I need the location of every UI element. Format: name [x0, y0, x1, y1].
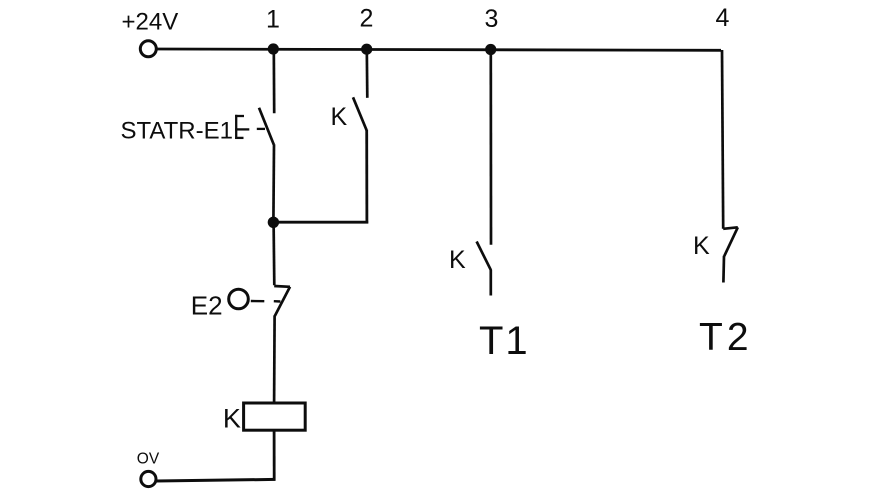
node A junction	[268, 217, 279, 228]
wire top rail	[157, 49, 722, 50]
pushbutton head of E2	[229, 289, 249, 309]
node 3 junction	[485, 44, 496, 55]
node 1 junction	[268, 43, 279, 54]
contact K column2 blade (NO)	[353, 97, 367, 130]
svg-text:3: 3	[485, 5, 499, 33]
wire column1 E2 to coil K	[273, 316, 276, 403]
node 2 junction	[361, 44, 372, 55]
contact K column4 (NC) blade	[724, 227, 738, 256]
svg-text:1: 1	[266, 5, 280, 33]
wire node A to column2	[273, 221, 368, 224]
contact K column3 blade (NO)	[477, 242, 491, 271]
svg-text:+24V: +24V	[122, 8, 179, 35]
svg-text:K: K	[693, 232, 710, 260]
terminal OV	[141, 471, 156, 486]
pushbutton actuator E of STATR-E1	[235, 115, 265, 139]
svg-text:2: 2	[360, 5, 374, 33]
contact E2 (NC) top bar	[274, 285, 290, 288]
svg-text:K: K	[223, 403, 241, 433]
svg-text:E2: E2	[191, 291, 223, 321]
actuator dashes of E2	[251, 300, 281, 303]
terminal +24V	[140, 41, 156, 57]
wire column1 node A to contact E2	[272, 222, 275, 285]
wire column4 contact stub to T2	[722, 256, 725, 283]
wire column3 contact stub to T1	[489, 270, 492, 296]
svg-text:T2: T2	[699, 316, 753, 359]
wire column1 rail to switch	[272, 49, 275, 113]
contact E2 (NC) blade	[275, 287, 290, 316]
svg-text:T1: T1	[479, 319, 530, 363]
wire bottom rail	[156, 479, 276, 481]
wire column2 contact to node A rail	[365, 130, 368, 224]
wire coil K to bottom rail	[273, 432, 276, 481]
svg-text:K: K	[331, 103, 348, 131]
wire column4 rail to contact K	[722, 50, 723, 229]
wire column1 switch to node A	[272, 144, 275, 222]
svg-text:K: K	[449, 246, 466, 274]
coil K	[244, 403, 306, 430]
svg-text:STATR-E1: STATR-E1	[121, 118, 233, 145]
switch STATR-E1 blade (NO pushbutton contact)	[259, 108, 274, 145]
svg-text:OV: OV	[137, 450, 160, 467]
wire column3 rail to contact K	[489, 49, 492, 245]
wire column2 rail to contact K	[365, 49, 368, 98]
svg-text:4: 4	[716, 4, 730, 32]
contact K column4 (NC) top bar	[723, 227, 738, 229]
